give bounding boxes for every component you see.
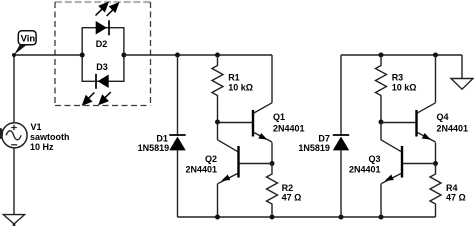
annotation dashed box top edge (grey) [55, 1, 151, 3]
resistor R1 [212, 55, 223, 122]
junction dot LED pair left node [80, 53, 85, 58]
svg-text:10 kΩ: 10 kΩ [392, 82, 417, 92]
label Q2 2N4401 [185, 154, 217, 175]
junction dot R1 top at top rail [215, 53, 220, 58]
svg-text:47 Ω: 47 Ω [446, 193, 466, 203]
node Vin name flag [14, 31, 36, 55]
LED D3 (pointing left) [96, 74, 109, 89]
diode D1 [169, 55, 185, 217]
resistor R4 [430, 164, 441, 218]
svg-text:D7: D7 [318, 133, 330, 143]
label D1 1N5819 [138, 133, 170, 153]
svg-text:Q3: Q3 [368, 154, 380, 164]
svg-text:2N4401: 2N4401 [349, 164, 381, 174]
svg-text:Q1: Q1 [273, 112, 285, 122]
svg-text:R3: R3 [392, 72, 404, 82]
wire V1 minus terminal to ground [13, 148, 15, 214]
diode D7 [333, 55, 349, 217]
label R3 10 kOhm [392, 72, 417, 92]
junction dot LED pair right node [121, 53, 126, 58]
resistor R3 [376, 55, 387, 122]
junction dot node E2 (Q4 emitter / Q3 base / R4 top) [433, 161, 438, 166]
junction dot node E1 (Q1 emitter / Q2 base / R2 top) [270, 161, 275, 166]
svg-text:Q4: Q4 [437, 112, 449, 122]
label V1 sawtooth 10 Hz [30, 122, 70, 152]
transistor Q4 [381, 55, 436, 164]
transistor Q3 (mirrored) [381, 122, 436, 217]
junction dot node B2 (R3 bottom / Q4 base / Q3 collector) [379, 120, 384, 125]
svg-text:47 Ω: 47 Ω [282, 193, 302, 203]
wire LED pair right node to Q1 collector corner (top rail, left net) [124, 54, 272, 56]
ground stem stub cropped at image bottom edge [13, 224, 16, 227]
svg-text:1N5819: 1N5819 [138, 143, 170, 153]
svg-text:2N4401: 2N4401 [437, 123, 469, 133]
svg-text:D2: D2 [96, 39, 108, 49]
svg-text:R4: R4 [446, 183, 458, 193]
junction dot D7 anode at bottom rail [339, 215, 344, 220]
ground symbol (right, top rail) [451, 55, 473, 89]
svg-text:D3: D3 [96, 62, 108, 72]
label Q4 2N4401 [437, 112, 469, 133]
label R4 47 Ohm [446, 183, 466, 203]
junction dot R2 bottom at bottom rail [270, 215, 275, 220]
label D7 1N5819 [298, 133, 330, 153]
svg-text:10 kΩ: 10 kΩ [228, 82, 253, 92]
resistor R2 [267, 164, 278, 218]
svg-text:2N4401: 2N4401 [273, 123, 305, 133]
ground symbol (left, below V1) [3, 215, 24, 224]
svg-text:R2: R2 [282, 183, 294, 193]
label R2 47 Ohm [282, 183, 302, 203]
transistor Q1 [218, 55, 273, 164]
D2 light emission arrows [96, 3, 119, 16]
svg-text:Q2: Q2 [205, 154, 217, 164]
annotation dashed box left, right and bottom edges [55, 2, 151, 106]
wire bottom rail (common emitter/return net) [178, 216, 436, 218]
svg-text:10 Hz: 10 Hz [30, 142, 54, 152]
svg-text:R1: R1 [228, 72, 240, 82]
svg-text:D1: D1 [156, 133, 168, 143]
junction dot node Vin [12, 53, 16, 57]
cropped black blob at left image edge [0, 128, 3, 139]
junction dot D1 cathode at top rail [175, 53, 180, 58]
D3 light emission arrows [83, 92, 111, 105]
junction dot node B (R1 bottom / Q1 base / Q2 collector) [215, 120, 220, 125]
voltage source V1 [2, 123, 27, 148]
transistor Q2 (mirrored) [218, 122, 273, 217]
junction dot Q4 collector at ground rail [433, 53, 438, 58]
junction dot Q2 emitter at bottom rail [215, 215, 220, 220]
svg-text:sawtooth: sawtooth [30, 132, 70, 142]
label R1 10 kOhm [228, 72, 253, 92]
wire Vin node to LED pair left node [14, 54, 82, 56]
wire loop around LED pair D2/D3 [82, 28, 124, 82]
wire top right ground rail [341, 54, 462, 56]
svg-text:1N5819: 1N5819 [298, 143, 330, 153]
label Q3 2N4401 [349, 154, 381, 175]
wire Vin node down to V1 plus terminal [13, 55, 15, 123]
svg-text:V1: V1 [31, 122, 42, 132]
junction dot R3 top at ground rail [379, 53, 384, 58]
junction dot Q3 emitter at bottom rail [379, 215, 384, 220]
LED D2 (pointing right) [96, 20, 109, 35]
svg-text:Vin: Vin [21, 34, 36, 45]
label Q1 2N4401 [273, 112, 305, 133]
svg-text:2N4401: 2N4401 [185, 164, 217, 174]
